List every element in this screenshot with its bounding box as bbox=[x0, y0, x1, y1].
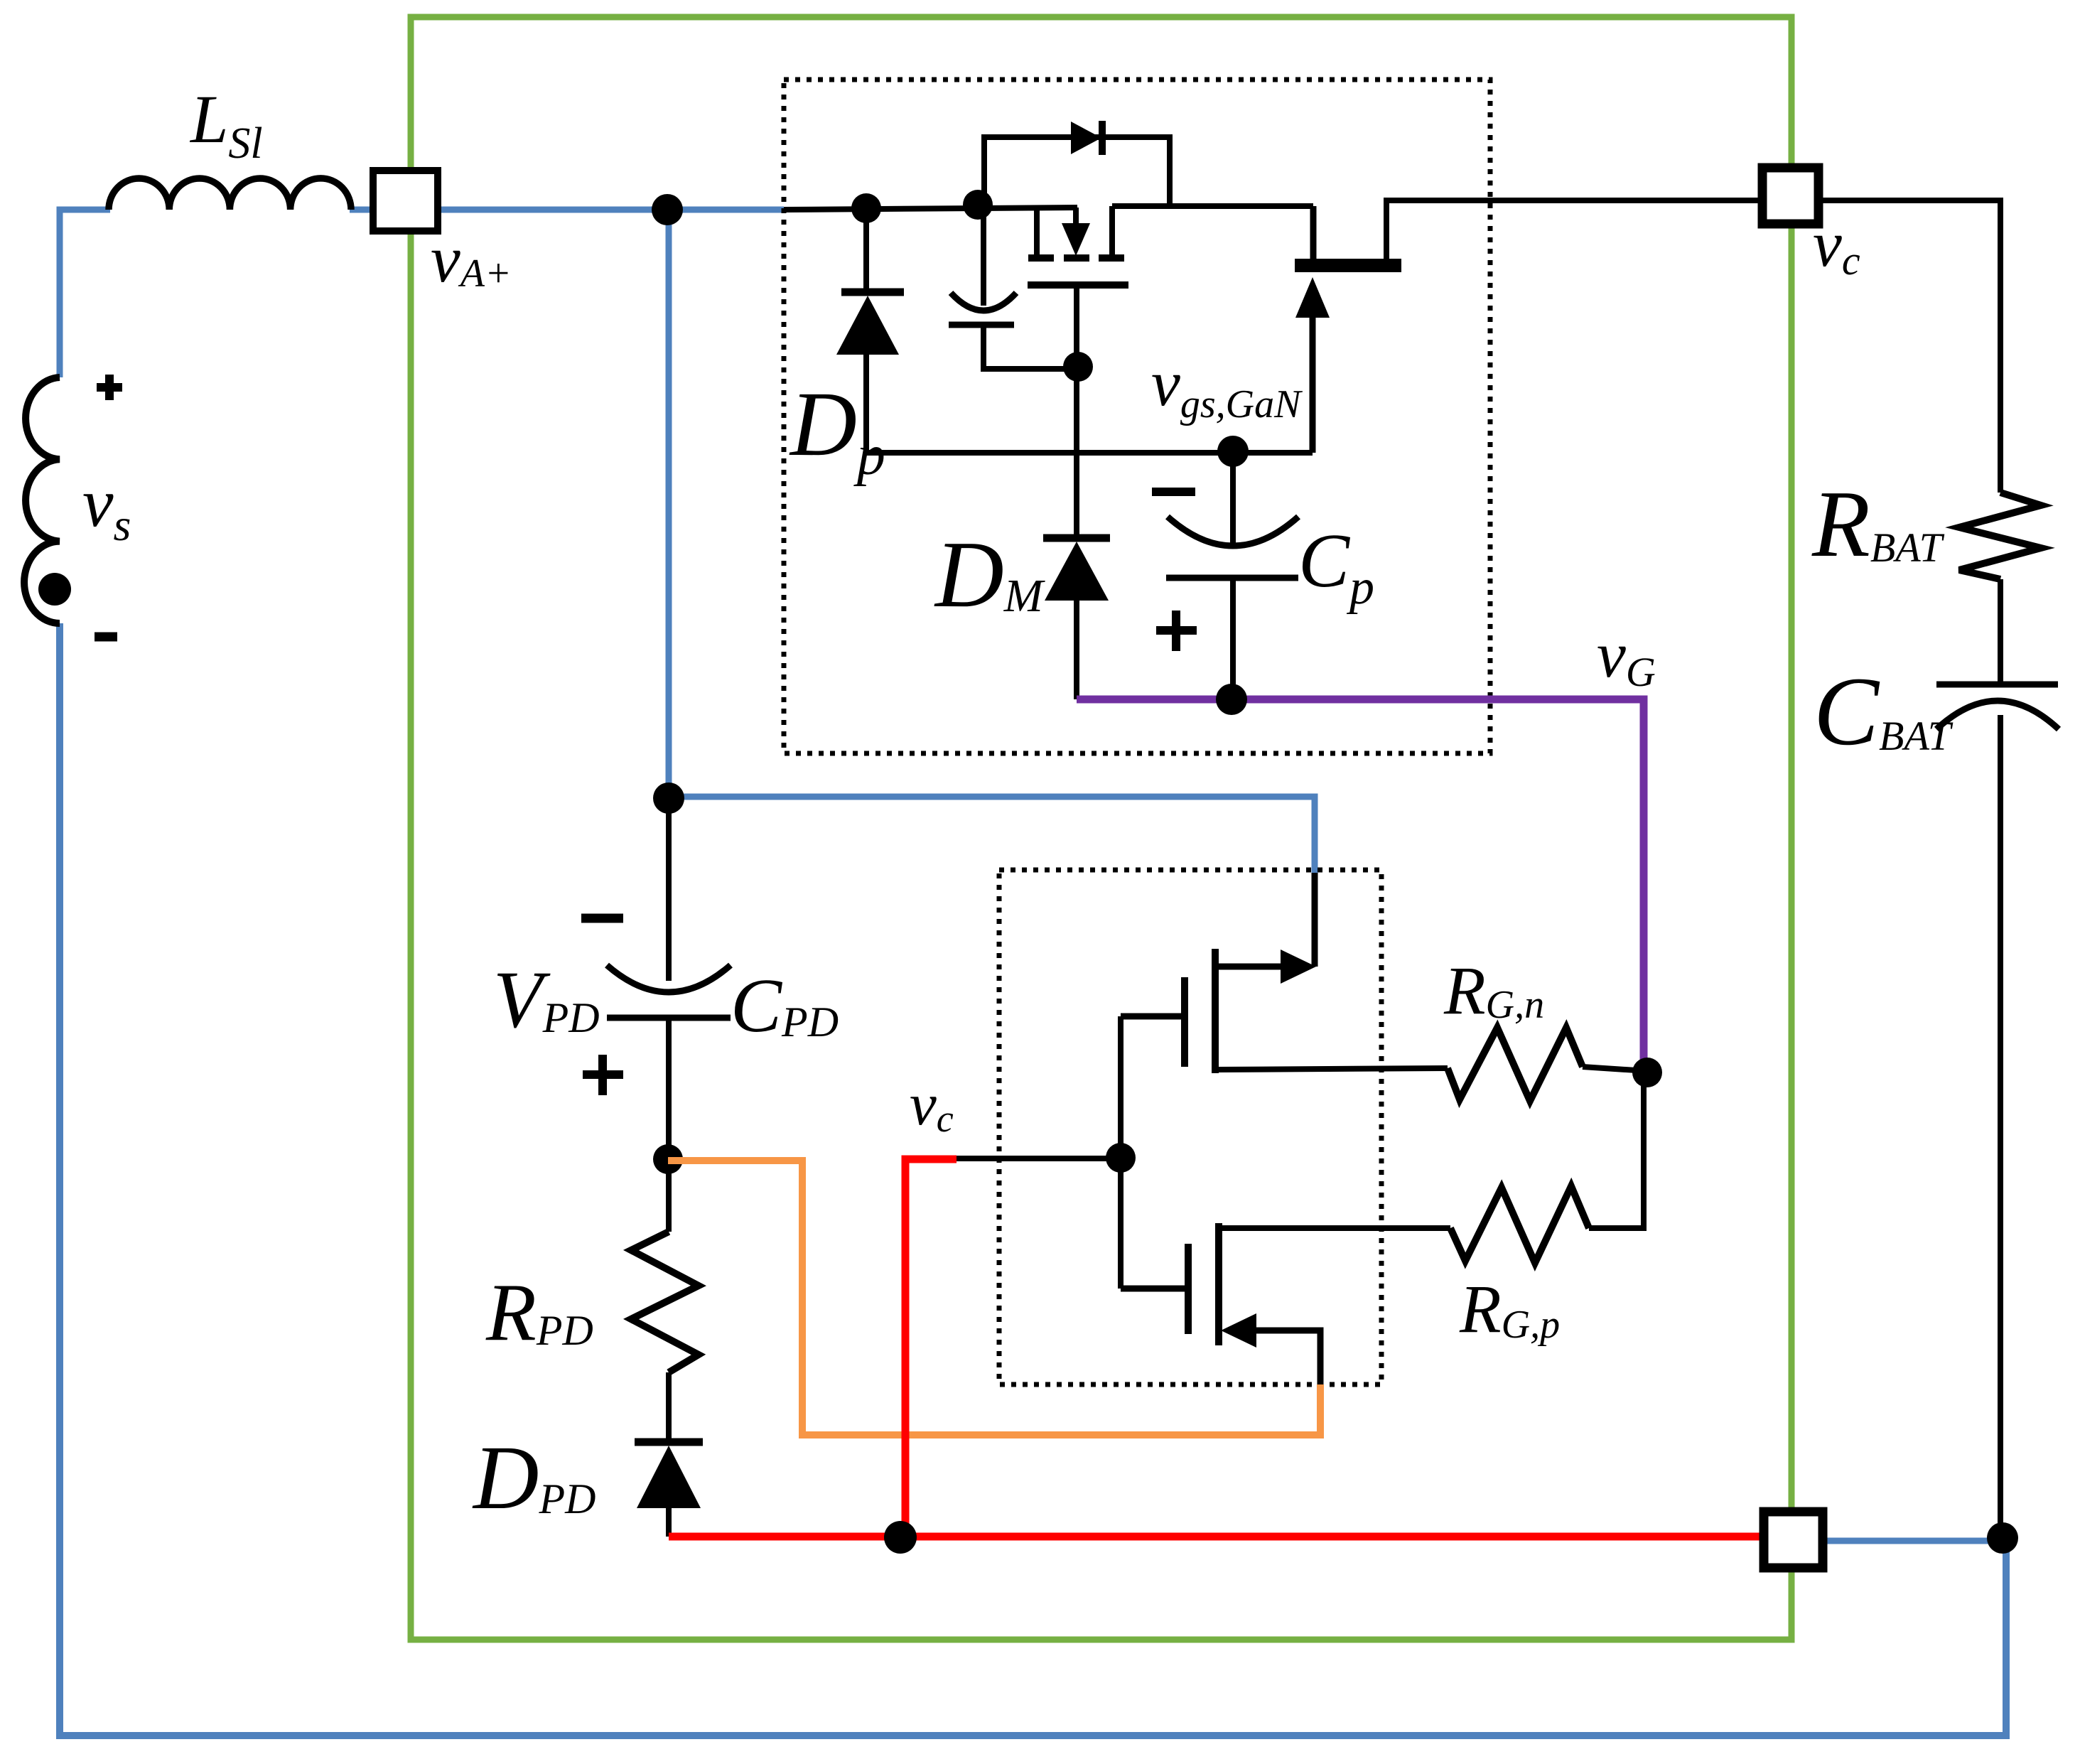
source stub and wire to vc bbox=[1386, 200, 1762, 259]
wire: blue left vertical below coil, bottom run, right riser to battery node bbox=[60, 623, 2006, 1736]
dotted box: driver cell bbox=[999, 870, 1381, 1384]
inductor L_Sl bbox=[109, 178, 351, 210]
voltage source v_s winding bbox=[24, 377, 60, 623]
node dot red junction bbox=[884, 1521, 917, 1554]
diode of bypass branch (points right) bbox=[1071, 122, 1101, 154]
wire: segment from Si-FET drain to GaN drain bbox=[1112, 203, 1313, 209]
capacitor C_BAT bbox=[1936, 682, 2058, 688]
label + of C_PD bbox=[583, 1055, 623, 1095]
junction dot gate/cap bbox=[1063, 352, 1093, 382]
capacitor (gate cap of Si FET) bbox=[981, 205, 986, 306]
node dot gate resistor junction bbox=[1632, 1058, 1662, 1087]
capacitor Cp bbox=[1230, 451, 1236, 544]
gate lead down bbox=[1074, 286, 1079, 536]
label + of v_s bbox=[97, 375, 122, 400]
junction dot at cap branch bbox=[963, 190, 993, 220]
wire: blue top from L_Sl to dotted box bbox=[350, 207, 784, 213]
node square vA+ bbox=[373, 171, 438, 231]
driver common gate rail bbox=[1118, 1016, 1123, 1289]
polarity dot of v_s bbox=[38, 573, 71, 606]
wire: top bypass diode branch bbox=[984, 137, 1170, 208]
resistor R_G,p bbox=[1450, 1186, 1589, 1263]
right stub bbox=[1109, 206, 1115, 257]
transistor Qp (lower, PMOS) bbox=[1215, 1223, 1222, 1345]
wire: red vc net bbox=[905, 1159, 957, 1537]
gate plate bbox=[1028, 281, 1128, 289]
resistor R_G,n bbox=[1448, 1028, 1583, 1101]
node square vc (top right) bbox=[1762, 168, 1818, 224]
green boundary box bbox=[411, 17, 1791, 1640]
resistor R_PD bbox=[631, 1232, 699, 1372]
wire: blue mid horizontal to driver box bbox=[669, 797, 1315, 873]
label - of Cp bbox=[1152, 488, 1195, 496]
label + of Cp bbox=[1156, 611, 1197, 651]
diode DM bbox=[1043, 534, 1110, 542]
wire: purple gate drive net bbox=[1077, 699, 1644, 1072]
label - of C_PD bbox=[581, 914, 623, 923]
Qp source lead with arrow (left) bbox=[1221, 1313, 1256, 1348]
node dot V_PD bottom bbox=[653, 1144, 683, 1174]
wire: vc square to battery leg bbox=[1818, 200, 2000, 493]
node vA+ junction dot bbox=[652, 194, 683, 225]
wire: blue top from source loop to L_Sl bbox=[60, 210, 110, 377]
diode Dp bbox=[851, 193, 881, 223]
wire: vc black lead into driver bbox=[957, 1156, 1121, 1161]
transistor GaN HEMT bbox=[1295, 259, 1401, 272]
node Cp bottom dot bbox=[1216, 684, 1247, 715]
node vgs,GaN bbox=[1217, 436, 1249, 467]
resistor R_BAT bbox=[1959, 493, 2041, 579]
drain stub bbox=[1310, 206, 1317, 259]
node dot left mid bbox=[653, 782, 684, 814]
wire: blue from bottom-right square to battery leg bbox=[1823, 1538, 2003, 1544]
diode D_PD bbox=[635, 1438, 703, 1446]
wire: orange pull-down net bbox=[668, 1161, 1320, 1435]
capacitor C_PD with V_PD bbox=[666, 798, 672, 981]
label - of v_s bbox=[95, 633, 117, 642]
Qn source lead to R_G,n bbox=[1215, 1068, 1448, 1070]
Qp drain lead to R_G,p bbox=[1219, 1225, 1450, 1231]
body arrow (down) bbox=[1073, 208, 1079, 226]
wire: main left segment inside box bbox=[784, 208, 1077, 210]
node square bottom right bbox=[1764, 1512, 1823, 1568]
dotted box: GaN switch cell bbox=[784, 80, 1490, 753]
wire: vgs node horizontal bbox=[866, 450, 1313, 456]
left stub bbox=[1034, 208, 1040, 257]
gate arrow (up) bbox=[1310, 316, 1316, 453]
wire: blue vA+ vertical drop bbox=[666, 210, 672, 798]
transistor Qn (upper, NMOS) bbox=[1312, 873, 1318, 967]
node dot bottom right junction bbox=[1987, 1522, 2018, 1554]
